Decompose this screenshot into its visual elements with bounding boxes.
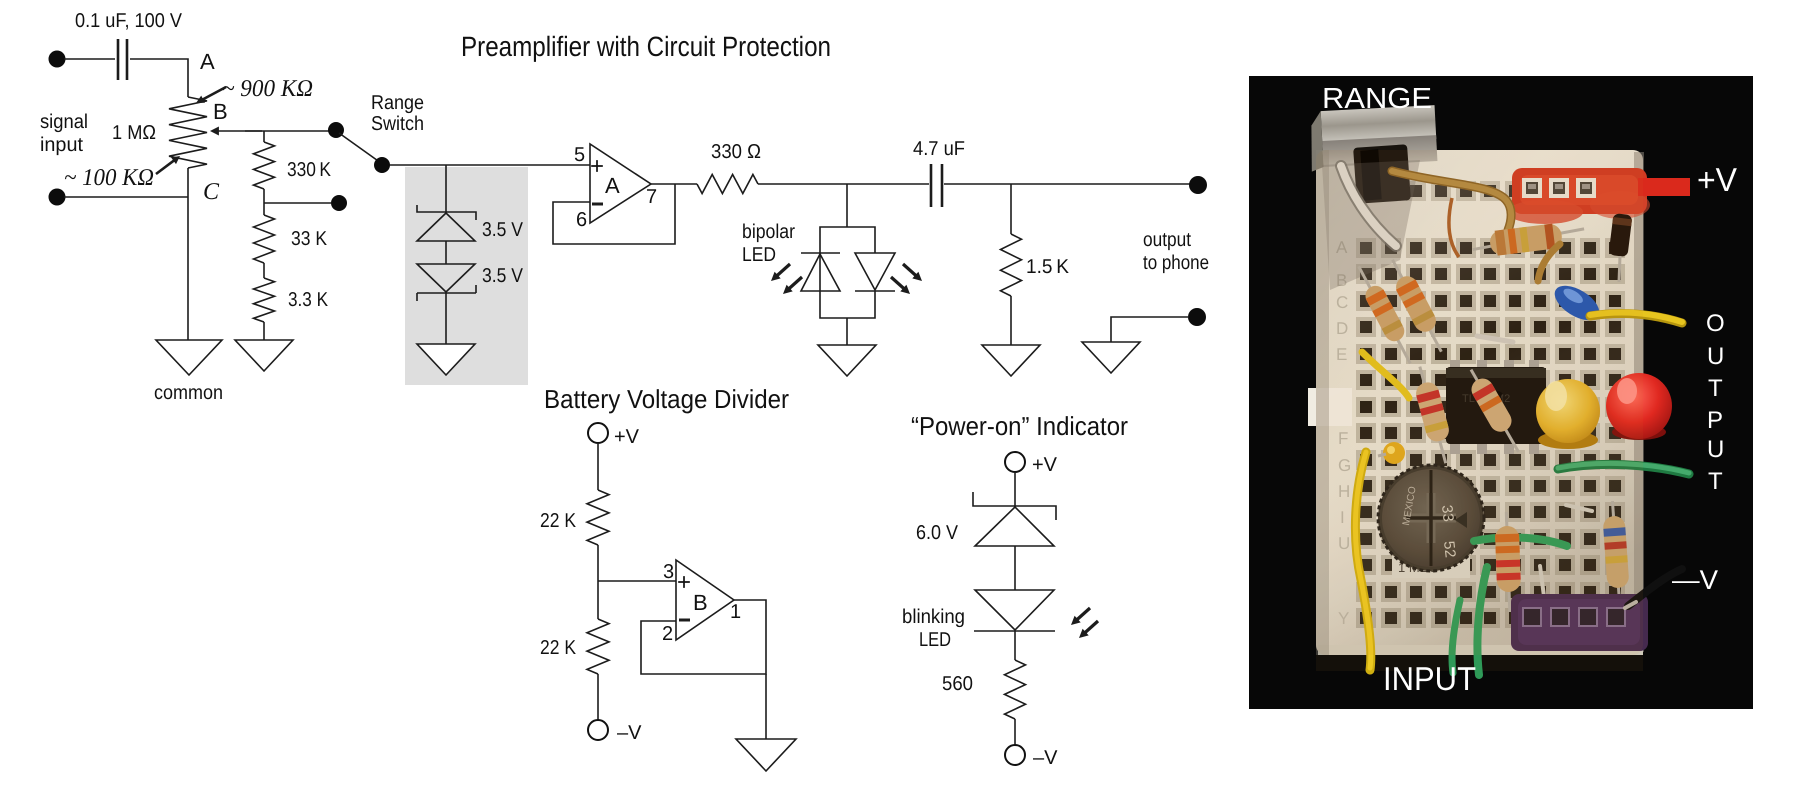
wire [1014,719,1016,745]
LED light arrows right [903,264,918,277]
resistor R7 22 K [587,490,609,545]
switch throw terminal [331,195,347,211]
lower output terminal [1188,308,1206,326]
svg-text:T: T [1708,468,1723,495]
wire [64,58,115,60]
+V terminal [588,423,608,443]
svg-text:C: C [203,179,220,205]
svg-text:330 K: 330 K [287,159,332,181]
svg-text:+V: +V [1032,454,1058,476]
svg-text:INPUT: INPUT [1383,660,1476,697]
svg-text:“Power-on” Indicator: “Power-on” Indicator [911,411,1128,441]
ground R6 [982,345,1040,376]
wire cap to output [944,183,1193,185]
photo: resistor crossing IC left [1409,363,1457,466]
photo: embossed row letters [1336,238,1351,628]
ground zeners [417,344,475,375]
photo: red marker +V rail [1512,168,1647,214]
svg-text:LED: LED [742,244,776,266]
svg-text:3.3 K: 3.3 K [288,289,329,311]
svg-text:U: U [1707,436,1724,463]
op-amp U1A [590,144,651,223]
photo: board bottom lip [1318,645,1643,657]
photo: red LED [1606,373,1672,440]
resistor R9 560 [1005,660,1026,719]
resistor R2 330 K [254,142,275,189]
wire to ground [765,674,767,739]
resistor R5 330 ohm [697,175,758,194]
svg-text:to phone: to phone [1143,252,1209,274]
svg-text:22 K: 22 K [540,637,577,659]
svg-text:4.7 uF: 4.7 uF [913,138,965,160]
wire switch to op-amp [390,164,590,166]
svg-text:1 MΩ: 1 MΩ [112,122,156,144]
photo: small yellow bead [1383,442,1405,464]
zener D2 3.5 V [417,264,475,292]
wire / junction to switch throw [263,189,265,215]
wire to zeners [445,165,447,213]
svg-text:~ 900 KΩ: ~ 900 KΩ [222,76,313,102]
capacitor C1 0.1 uF [117,39,120,80]
+V terminal [1005,452,1025,472]
svg-text:Preamplifier with Circuit Prot: Preamplifier with Circuit Protection [461,31,831,62]
wire B to switch [245,130,332,132]
photo: breadboard hole grid [1356,181,1625,628]
ground R4 [235,340,293,371]
svg-text:+: + [590,153,604,180]
LED light arrows [1076,608,1091,621]
photo: blue bead [1549,279,1605,328]
svg-text:2: 2 [662,623,673,645]
photo: tan wire from switch [1392,171,1511,230]
photo: center resistor vertical [1494,512,1521,613]
wire [445,241,447,264]
svg-text:RANGE: RANGE [1322,83,1432,115]
svg-text:7: 7 [646,186,657,208]
svg-text:5: 5 [574,144,585,166]
svg-text:0.1 uF, 100 V: 0.1 uF, 100 V [75,10,183,32]
svg-text:blinking: blinking [902,606,965,628]
wire down to R6 [1010,184,1012,234]
svg-text:A: A [605,173,620,198]
resistor R3 33 K [254,215,275,263]
photo: diode near +V [1609,213,1633,257]
photo: IC op-amp DIP-8 [1446,360,1546,454]
photo: tan wire down from resistor [1538,244,1560,281]
svg-text:–V: –V [1033,747,1058,769]
photo: long yellow wire left [1355,452,1370,670]
photo: left diagonal resistor 2 [1383,255,1451,357]
svg-text:+V: +V [1697,161,1737,198]
photo: trimmer label strip [1392,556,1470,578]
wire to ground [846,318,848,345]
wire [263,263,265,278]
wire down to bipolar LED [846,184,848,227]
wire to ground [1111,317,1189,342]
wire [1010,296,1012,345]
output wire [651,183,697,185]
ground common [156,340,222,375]
photo: white wire from switch [1341,166,1396,246]
svg-text:3: 3 [663,561,674,583]
svg-text:+: + [677,569,691,596]
svg-text:–V: –V [617,722,642,744]
feedback wires U1B [641,600,766,674]
photo: silver jumper pin [1477,336,1513,342]
protection zener box (shaded) [405,167,528,385]
resistor R4 3.3 K [254,278,275,322]
svg-text:B: B [693,590,708,615]
svg-text:O: O [1706,310,1725,337]
svg-text:+V: +V [614,426,640,448]
photo: left diagonal resistor 1 [1351,261,1420,368]
photo: red wire to +V [1638,178,1690,196]
wire [187,168,189,340]
svg-text:Range: Range [371,92,424,114]
photo: shadow under switch [1322,160,1420,290]
photo: green wire bottom [1452,600,1460,673]
wire [1014,546,1016,590]
photo: right resistor vertical [1601,500,1630,604]
svg-text:B: B [213,99,228,124]
photo: warm light tint [1316,150,1643,655]
op-amp U1B [676,560,734,640]
photo: yellow wire mid-left [1362,352,1409,398]
wire [263,322,265,340]
photo: board right edge shadow [1634,152,1644,652]
wire [597,674,599,720]
photo: black background [1249,76,1753,709]
photo: yellow LED [1536,379,1600,449]
photo: board shading overlay [1316,150,1643,655]
svg-text:output: output [1143,229,1191,251]
LED light arrows left [776,264,791,277]
resistor R8 22 K [587,619,609,674]
svg-text:1: 1 [730,601,741,623]
ground bipolar LED [818,345,876,376]
ground output [1082,342,1140,373]
svg-text:A: A [200,49,215,74]
bipolar LED D3 D4 [820,227,875,253]
input terminal top [49,51,66,68]
potentiometer R1 1 M ohm [169,97,207,168]
photo: green wire upper right [1558,464,1689,474]
photo: trimmer potentiometer [1378,465,1484,571]
feedback wires U1A [553,184,675,244]
wire [1014,631,1016,660]
photo: copper wire loop [1449,198,1459,257]
photo: yellow wire to OUTPUT [1590,314,1682,323]
wire to capacitor [758,183,929,185]
svg-text:330 Ω: 330 Ω [711,141,761,163]
wire [597,443,599,490]
svg-text:bipolar: bipolar [742,221,795,243]
svg-text:22 K: 22 K [540,510,577,532]
photo: silver pins [1540,566,1545,604]
output terminal [1189,176,1207,194]
photo: resistor crossing IC right [1461,364,1528,457]
svg-text:U: U [1707,343,1724,370]
blinking LED D6 [975,590,1054,630]
svg-text:—V: —V [1672,565,1718,595]
svg-text:33 K: 33 K [291,228,328,250]
svg-text:3.5 V: 3.5 V [482,265,524,287]
svg-text:3.5 V: 3.5 V [482,219,524,241]
input terminal bottom [49,189,66,206]
photo: purple marker strip [1511,594,1648,651]
wire junction to R2 [263,131,265,142]
svg-text:T: T [1708,375,1723,402]
svg-text:input: input [40,134,83,156]
wire with junction [597,545,599,619]
wire [1014,472,1016,507]
wire [64,196,188,198]
zener D1 3.5 V [417,205,476,220]
photo: green wire mid horizontal [1474,537,1567,546]
-V terminal [588,720,608,740]
photo: breadboard body [1316,150,1643,655]
photo: RANGE slide switch [1309,105,1438,172]
svg-text:1.5 K: 1.5 K [1026,256,1070,278]
ground U1B [736,739,796,771]
photo: left notch tab [1308,388,1352,426]
svg-text:6.0 V: 6.0 V [916,522,959,544]
svg-text:LED: LED [919,629,951,651]
photo: green wire down [1477,567,1487,675]
photo: OUTPUT label [1706,310,1725,495]
resistor R6 1.5 K [1001,234,1022,296]
svg-text:P: P [1707,407,1723,434]
svg-text:Battery Voltage Divider: Battery Voltage Divider [544,384,789,414]
-V terminal [1005,745,1025,765]
svg-text:6: 6 [576,209,587,231]
svg-text:Switch: Switch [371,113,424,135]
photo: black wire to -V [1628,569,1682,606]
svg-text:560: 560 [942,673,973,695]
svg-text:~ 100 KΩ: ~ 100 KΩ [64,165,154,191]
svg-text:common: common [154,382,223,404]
wire to node A [130,59,188,97]
photo: horizontal resistor top [1471,220,1586,259]
zener D5 6.0 V [973,492,1056,520]
wire [445,293,447,344]
svg-text:signal: signal [40,111,88,133]
